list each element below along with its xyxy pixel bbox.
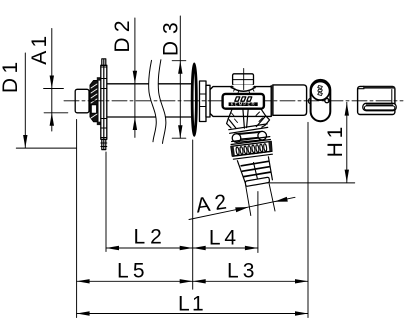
svg-text:A: A (194, 193, 211, 218)
outlet cone skirt (227, 109, 270, 134)
valve body right section (273, 85, 307, 115)
L2 arrows (106, 246, 119, 250)
D1 arrow (23, 135, 27, 148)
name bar (229, 102, 258, 106)
dimension A1 (51, 29, 53, 132)
key logo marks (318, 86, 323, 96)
label D1 (0, 62, 22, 93)
dimension L4 (193, 247, 258, 249)
A2 extension right (spout edge) (269, 184, 275, 211)
wire: tube top edge (107, 83, 191, 85)
ball joint band (237, 131, 263, 142)
ball joint capsule link (239, 132, 260, 139)
label A1 (28, 36, 51, 65)
svg-text:1: 1 (324, 127, 347, 139)
dimension D3 (179, 16, 181, 138)
knurled nut band (231, 141, 272, 156)
svg-text:2: 2 (111, 20, 134, 32)
bonnet flare corners (231, 85, 232, 88)
bonnet (square head) (233, 74, 254, 85)
svg-text:KEMPER: KEMPER (231, 102, 256, 107)
svg-text:H: H (324, 142, 347, 157)
svg-text:5: 5 (133, 260, 145, 283)
extension line wall face / flange (192, 140, 194, 289)
svg-text:L: L (117, 260, 129, 283)
arrowheads (23, 61, 349, 316)
ball joint right sphere (258, 131, 267, 140)
label H1 (324, 127, 347, 158)
svg-text:3: 3 (243, 260, 255, 283)
L3 arrows (193, 279, 206, 283)
svg-text:3: 3 (159, 22, 182, 34)
threaded cone (90, 77, 101, 125)
flange hub ring B (206, 85, 210, 117)
D3 arrows (178, 61, 182, 74)
key head circle (311, 82, 330, 101)
dimension H1 (346, 102, 348, 182)
svg-text:L: L (134, 225, 146, 248)
svg-text:D: D (159, 41, 182, 56)
svg-text:A: A (28, 51, 51, 65)
H1 arrows (345, 103, 349, 116)
svg-text:D: D (0, 78, 22, 93)
D2 arrows (133, 71, 137, 84)
label D2 (111, 20, 134, 52)
wall rosette (flange plate, side view) (101, 59, 107, 150)
body divider double line (270, 86, 272, 117)
A1 arrows (50, 76, 54, 89)
flange hub ring A (200, 81, 207, 122)
valve body main section (210, 87, 271, 117)
dimension L1 (77, 313, 308, 315)
svg-text:4: 4 (224, 226, 236, 249)
A2 arrows (235, 207, 248, 212)
label plate (KEMPER badge) (223, 94, 264, 109)
hose connector tip cap (245, 177, 269, 186)
svg-text:L: L (209, 226, 221, 249)
center line (dash-dot axis) (64, 100, 403, 102)
cap rim notch (358, 86, 364, 88)
logo parallelograms (235, 97, 252, 101)
break lines (pipe interruption) (149, 60, 166, 144)
L4 arrows (193, 246, 206, 250)
svg-text:1: 1 (192, 292, 204, 315)
knurled nut bottom rim (233, 151, 272, 156)
valve rosette flange (lens shape) (192, 64, 196, 135)
bonnet vertical center line (243, 69, 245, 90)
extension line left fixture end (76, 120, 78, 318)
L1 arrows (77, 311, 90, 315)
knurled nut slots (236, 144, 267, 155)
knurled nut rim (232, 137, 270, 142)
removable key (oval cylinder) (311, 80, 331, 121)
key pin circle (325, 99, 329, 103)
dimension L3 (193, 280, 308, 282)
A2 extension left (spout edge) (246, 185, 251, 216)
dimension D1 (24, 53, 26, 148)
extension line body right end (307, 122, 309, 317)
dome washer under bonnet (231, 85, 255, 90)
label D3 (159, 22, 182, 56)
dimension L5 (77, 280, 193, 282)
label A2 (194, 191, 228, 218)
hose connector tube (237, 157, 272, 185)
dimension L2 (106, 247, 193, 249)
wire: tube bottom edge (107, 116, 191, 118)
svg-text:D: D (111, 38, 134, 53)
svg-text:2: 2 (150, 225, 162, 248)
knurled nut end shading (231, 146, 235, 156)
cap clip slot (363, 103, 396, 110)
extension line wall rosette (105, 152, 107, 252)
ball joint left sphere (232, 134, 241, 143)
svg-text:1: 1 (0, 62, 22, 74)
protective cap (358, 86, 395, 114)
svg-text:2: 2 (213, 191, 228, 215)
inlet male thread end cap (75, 89, 89, 113)
svg-text:L: L (178, 292, 190, 315)
dimension A2 angled line (189, 197, 295, 219)
L5 arrows (77, 279, 90, 283)
extension line outlet center (257, 192, 259, 253)
svg-text:L: L (227, 260, 239, 283)
key notch circle on body end (308, 98, 314, 104)
svg-text:1: 1 (28, 36, 51, 48)
dimension D2 (134, 18, 136, 137)
